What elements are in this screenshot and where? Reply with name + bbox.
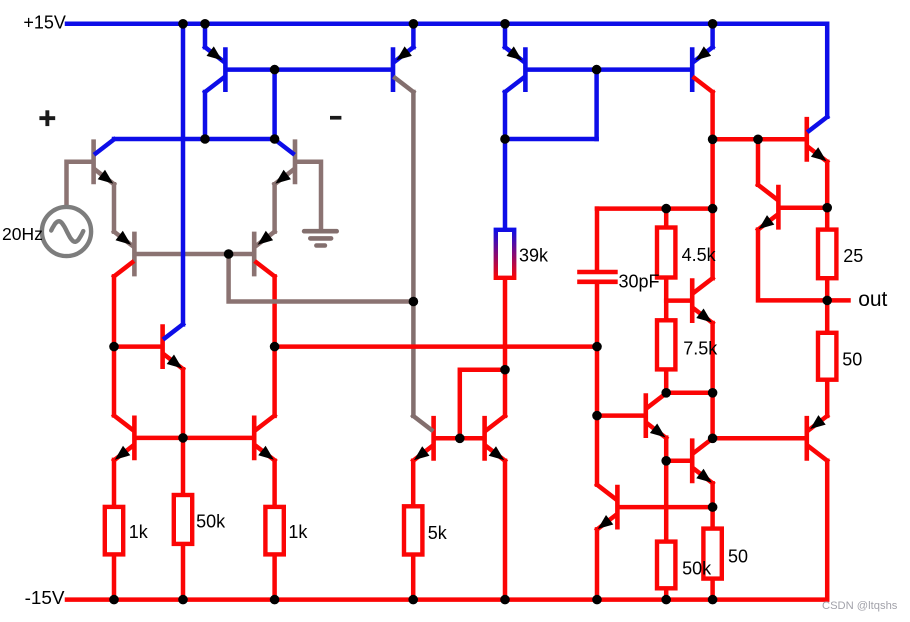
node R7.5k bottom [661,388,671,398]
svg-text:39k: 39k [519,245,549,265]
node Q8base-Q2col [270,65,280,75]
wire Q11 emitter [503,461,508,600]
wire Q8-Q9 base link [227,67,391,72]
label 1k (left) [129,522,149,542]
svg-text:CSDN @ltqshs: CSDN @ltqshs [822,600,898,612]
svg-text:7.5k: 7.5k [683,338,718,358]
label -15V [25,588,65,609]
transistor Q3 (common base PNP) [114,231,134,277]
node Q7 base [109,342,119,352]
wire Q20 base [713,436,805,441]
wire Q8 emitter [203,24,208,47]
label 5k [428,523,448,543]
node rail-Q22e [592,595,602,605]
wire Q5 emitter to R1ka [112,460,117,507]
node Q19 base [661,456,671,466]
wire Q2 base to ground [297,162,321,230]
svg-text:50: 50 [842,349,862,369]
label +15V [23,13,66,33]
wire Q9 base to Q12 base [527,67,690,72]
wire Q19 base [666,459,690,464]
svg-text:-15V: -15V [25,588,65,609]
node Q15e-Q20col... (x712,y392) [708,388,718,398]
wire Q15 collector [710,209,715,279]
node out [822,296,832,306]
wire Q12 collector down [710,92,715,209]
wire R1kb bottom lead [272,554,277,599]
wire Q7 base [114,344,160,349]
wire -15V rail (bottom) [67,461,827,600]
wire R1ka bottom lead [112,554,117,599]
transistor Q10b (current source) [413,416,433,461]
svg-text:1k: 1k [129,522,149,542]
wire Q16 emitter to R50kb [664,438,669,542]
wire Q5-Q6 base link [136,436,252,441]
wire Q9 base-collector tie vertical [594,70,599,139]
ground [304,231,337,245]
node rail-R5k [408,595,418,605]
wire R5k bottom lead [411,555,416,600]
node Q22 base [708,502,718,512]
node rail-Q9e [500,19,510,29]
node rail-Q12e [708,19,718,29]
wire Q22 base [620,505,713,510]
label 39k [519,245,549,265]
resistor R50a (output top) [818,333,836,380]
label 50k (right) [682,558,712,578]
wire Q11 collector-base tie [460,370,505,439]
transistor Q1 (input NPN +) [94,139,114,184]
label 25 [843,246,863,266]
node Q12col-Q14base [708,135,718,145]
wire Q3-Q4 base link [136,252,252,257]
wire Q15 emitter down [710,323,715,438]
label + (non-inverting input) [39,110,55,126]
node Q10b-Q11 bases [455,434,465,444]
label 7.5k [683,338,718,358]
transistor Q8 (input mirror) [205,46,225,92]
node rail-R1ka [109,595,119,605]
node stage2 right [592,342,602,352]
wire Q15 base [666,298,690,303]
transistor Q16 (gain stage) [646,393,666,438]
node rail-Q11e [500,595,510,605]
node Q17 base [822,203,832,213]
node Q5Q6 bases [178,433,188,443]
label 30pF [619,271,660,291]
resistor R1ka [105,507,123,555]
wire C30p node down to Q22 collector [595,347,600,485]
label 20Hz [2,224,43,244]
svg-text:5k: 5k [428,523,448,543]
transistor Q20 (output PNP) [807,415,827,461]
wire Q17 collector up to Q14 base [756,139,761,185]
resistor R25 [818,230,836,279]
transistor Q22 (gain stage) [597,485,617,530]
svg-text:1k: 1k [288,522,308,542]
svg-text:30pF: 30pF [619,271,660,291]
node rail-R1kb [270,595,280,605]
wire Q4 collector to Q6 collector [272,276,277,416]
wire Q10 emitter [411,24,416,47]
wire +15V rail (top) [67,24,827,117]
node rail-Q5col [178,19,188,29]
svg-text:20Hz: 20Hz [2,224,43,244]
node Q17col-Q14base [753,135,763,145]
wire Q2 emitter to Q4 emitter [272,184,277,231]
node rail-R50ka [178,595,188,605]
svg-text:50k: 50k [682,558,712,578]
wire Q14 base node [713,137,805,142]
node rail-Q8e [200,19,210,29]
transistor Q7 (mirror driver) [163,324,183,369]
transistor Q2 (input NPN -) [275,139,295,184]
node Q2col-y139 [270,134,280,144]
svg-text:50k: 50k [196,511,226,531]
wire R4.5k to R7.5k [664,278,669,321]
transistor Q11 (current mirror diode) [485,416,505,461]
svg-text:+15V: +15V [23,13,66,33]
transistor Q5 (mirror NPN) [114,416,134,461]
node Q3Q4 base [224,249,234,259]
label 1k (right) [288,522,308,542]
node Q16 base [592,411,602,421]
node Q8col-y139 [200,134,210,144]
wire Q9 emitter [503,24,508,47]
wire Q19 emitter to R50b [710,483,715,529]
wire R25 to out node [825,278,830,300]
resistor R50ka [174,495,192,544]
wire out to R50a [825,300,830,332]
wire Q6 emitter to R1kb [272,461,277,507]
transistor Q6 (mirror NPN) [254,416,274,461]
transistor Q14 (output NPN) [807,117,827,162]
wire Q8 base to Q2 collector [272,70,277,139]
wire second stage input node [275,344,597,349]
resistor R7.5k [657,320,675,369]
wire R50kb bottom lead [664,588,669,599]
label 50 (lower) [728,547,748,567]
wire Q16 base [597,413,644,418]
node rail-R50b [708,595,718,605]
wire out stub [827,298,848,303]
label 50k (left) [196,511,226,531]
node Q9col-y139 [500,134,510,144]
wire Q8 collector [203,92,208,139]
node R4.5k top [661,204,671,214]
svg-text:50: 50 [728,547,748,567]
label 4.5k [682,245,717,265]
node rail-R50kb [661,595,671,605]
transistor Q15 (gain stage) [692,278,712,323]
transistor Q4 (common base PNP) [254,231,274,277]
wire node y139 left (Q1/Q2 collectors) [114,137,275,142]
wire Q10b emitter to R5k [411,461,416,507]
transistor Q19 (gain stage) [692,438,712,483]
wire Q3/Q4 bases to bias node [229,254,414,302]
node bias [409,297,419,307]
svg-text:out: out [858,288,887,311]
transistor Q17 (output driver) [758,185,778,230]
resistor R50kb [657,542,675,589]
wire Q1 emitter to Q3 emitter [112,184,117,231]
wire R50b bottom lead [710,579,715,600]
node Q11 tie [500,365,510,375]
svg-text:25: 25 [843,246,863,266]
wire Q7 emitter to R50ka [181,369,186,495]
transistor Q9 (mirror diode) [505,46,525,92]
resistor R5k [404,506,422,554]
wire Q14 emitter to R25 [825,162,830,230]
resistor R4.5k [657,228,675,278]
svg-text:4.5k: 4.5k [682,245,717,265]
wire C30p top lead [595,209,600,270]
node stage2 left [270,342,280,352]
label out [858,288,887,311]
wire Q9 collector down to R39k [503,92,508,230]
wire Q1 base to source [67,162,92,207]
wire R50a to Q20 emitter [825,380,830,416]
wire Q22 emitter [595,529,600,599]
transistor Q10 (bias PNP) [393,46,413,92]
label - (inverting input) [330,116,341,120]
wire R4.5k top lead [664,209,669,228]
wire Q10b-Q11 base link [436,436,483,441]
wire Q3 collector to Q5 collector [112,276,117,415]
capacitor C1 30pF [577,270,618,347]
node Q15 collector [708,204,718,214]
wire Q10 collector down to Q11 collector [411,92,416,416]
transistor Q12 (bias PNP) [692,46,712,92]
voltage source V1 20Hz (AC) [42,207,91,256]
wire R39k to Q11 collector [503,278,508,416]
node Q19 collector [708,434,718,444]
node Q9 base tie [592,65,602,75]
wire Q17 emitter to out [758,230,827,301]
resistor R50b (output bottom) [703,529,721,579]
wire Q17 base [781,205,828,210]
watermark CSDN @ltqshs [822,600,898,612]
wire C30p top node [597,206,713,211]
wire Q9 collector loop horizontal [505,137,597,142]
label 50 (upper) [842,349,862,369]
node rail-Q10e [409,19,419,29]
wire Q12 emitter [710,24,715,47]
resistor R1kb [265,507,283,555]
wire R50ka bottom lead [181,544,186,600]
wire R7.5k node link [666,391,712,396]
wire R7.5k bottom lead [664,369,669,392]
wire Q8-emitter-rail to Q5 collector (long blue vertical) [181,24,186,325]
